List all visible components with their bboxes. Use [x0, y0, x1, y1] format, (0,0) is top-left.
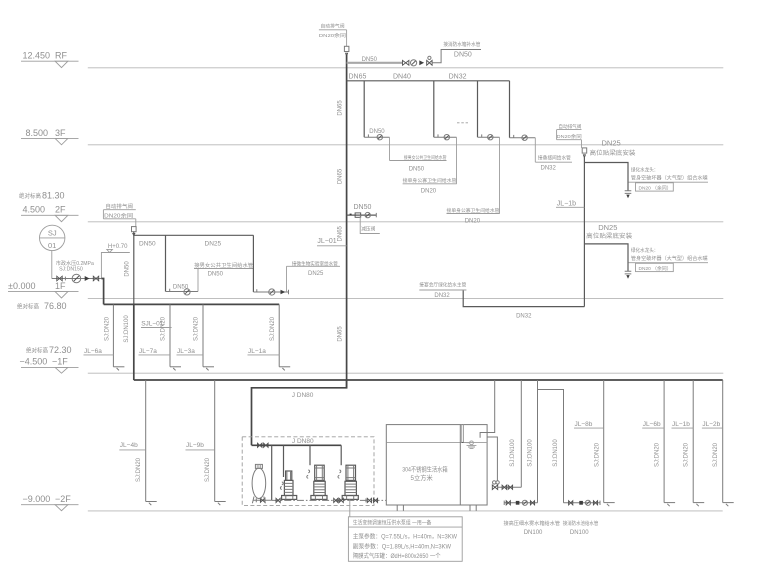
connector down to callout 3 — [499, 137, 501, 213]
svg-text:自动排气阀: 自动排气阀 — [321, 22, 345, 29]
callout lab supply DN25 (2F) — [287, 260, 341, 278]
svg-text:DN32: DN32 — [516, 313, 532, 319]
level marker -2F -9.000 — [21, 494, 79, 511]
svg-text:DN20: DN20 — [465, 218, 481, 224]
valve pair suction before pump1 — [276, 498, 280, 502]
end cap JL-6b — [664, 503, 675, 507]
svg-text:JL−9b: JL−9b — [186, 442, 204, 449]
label auto air valve (top, DN20) — [319, 22, 347, 46]
end cap JL-6a — [113, 367, 124, 371]
pipe drop 2 from header — [433, 81, 435, 137]
meter M1 water meter — [72, 274, 81, 283]
svg-text:−9.000: −9.000 — [23, 494, 51, 504]
svg-text:DN20 （余同）: DN20 （余同） — [639, 265, 672, 272]
pipe overflow to valve — [487, 437, 497, 481]
svg-text:SJ:DN20: SJ:DN20 — [684, 442, 690, 467]
pipe JL-6b — [663, 380, 665, 503]
pipe 2F distribution top — [134, 234, 254, 236]
svg-text:SJ:DN20: SJ:DN20 — [194, 316, 200, 341]
connector up to callout — [197, 269, 199, 292]
pipe JL-8b — [603, 380, 605, 503]
svg-text:减压阀: 减压阀 — [361, 224, 375, 232]
svg-text:DN50: DN50 — [409, 167, 425, 173]
pipe JL-7a — [169, 304, 171, 366]
svg-text:JL−1b: JL−1b — [672, 421, 690, 428]
level marker 1F 0.000 with absolute elevation 76.80 — [8, 281, 79, 311]
svg-text:副泵参数：Q=1.89L/s,H=40m,N=3KW: 副泵参数：Q=1.89L/s,H=40m,N=3KW — [353, 542, 452, 550]
pipe JL-6a — [112, 304, 114, 366]
svg-text:接桑拯间给水管: 接桑拯间给水管 — [538, 154, 571, 162]
pipe drop 1 from header — [363, 81, 365, 137]
svg-text:SJ:DN100: SJ:DN100 — [124, 315, 130, 343]
air valve AV3 on left riser — [132, 227, 137, 236]
pump P1 small — [282, 471, 297, 499]
svg-text:DN65: DN65 — [338, 225, 344, 241]
valve V3 check on DN50 stub — [419, 60, 424, 65]
level marker 3F 8.500 — [21, 128, 79, 145]
svg-text:主泵参数：Q=7.55L/s，H=40m，N=3KW: 主泵参数：Q=7.55L/s，H=40m，N=3KW — [353, 533, 458, 541]
svg-text:DN65: DN65 — [338, 326, 344, 342]
branch 2F-2 w/ valve and check — [253, 289, 288, 295]
connector down to callout 4 — [534, 138, 536, 163]
pipe drop 3 from header — [477, 81, 479, 137]
label JL-8b — [574, 421, 604, 428]
branch PRV at 2F right of riser — [347, 212, 377, 217]
svg-text:76.80: 76.80 — [44, 301, 67, 311]
svg-text:DN20余同: DN20余同 — [104, 211, 133, 219]
pipe J DN80 pump discharge main — [252, 380, 347, 445]
end cap JL-9b — [215, 502, 226, 506]
svg-text:SJ:DN150: SJ:DN150 — [59, 267, 83, 273]
svg-text:304不锈钢生活水箱: 304不锈钢生活水箱 — [402, 464, 448, 473]
label JL-7a — [139, 348, 171, 355]
svg-text:DN20 （余同）: DN20 （余同） — [639, 184, 672, 191]
leader from text box to pump group — [349, 499, 351, 516]
svg-text:DN50: DN50 — [354, 204, 372, 211]
svg-text:DN32: DN32 — [449, 74, 467, 81]
pipe suction line (dash-dot) — [272, 499, 387, 501]
svg-text:81.30: 81.30 — [42, 191, 65, 201]
level marker RF 12.450 — [21, 51, 79, 68]
end cap JL-1a — [279, 367, 290, 371]
valve V1 gate on DN50 stub — [403, 60, 409, 65]
label JL-6b — [642, 421, 664, 428]
svg-text:H+0.70: H+0.70 — [108, 244, 128, 250]
svg-text:DN20余同: DN20余同 — [319, 32, 346, 39]
label SJL-01 — [141, 320, 172, 327]
pipe service entrance 1F — [52, 278, 102, 280]
pipe drop 4 (header end corner) — [509, 81, 511, 138]
svg-text:SJ:DN20: SJ:DN20 — [161, 316, 167, 341]
connector up to callout — [286, 266, 288, 292]
label auto air valve (2F left) — [103, 202, 135, 226]
svg-text:DN100: DN100 — [570, 530, 589, 536]
tank 304 stainless water tank — [386, 425, 487, 505]
end cap JL-8b — [604, 503, 615, 507]
pipe JL-1a (header end corner) — [278, 304, 280, 366]
svg-text:JL−1a: JL−1a — [248, 348, 266, 355]
svg-text:72.30: 72.30 — [49, 345, 72, 355]
end cap JL-3a — [203, 367, 214, 371]
valve pair on manifold — [258, 443, 269, 447]
connector down to callout 2 — [456, 137, 458, 184]
callout banquet hall greening main DN32 — [419, 281, 466, 299]
end cap JL-1b — [693, 503, 704, 507]
svg-text:DN65: DN65 — [338, 100, 344, 116]
svg-text:高位贴梁底安装: 高位贴梁底安装 — [586, 232, 632, 240]
text box pump parameters — [348, 517, 462, 562]
header pipe at RF underside — [347, 80, 510, 82]
pipe JL-4b — [145, 380, 147, 502]
svg-text:DN50: DN50 — [173, 284, 189, 290]
check fittings pump 2 — [307, 470, 310, 478]
callout apartment WC supply DN20 (2) — [447, 207, 500, 225]
valve MV motor operated — [492, 481, 499, 490]
svg-text:SJ:DN20: SJ:DN20 — [595, 442, 601, 467]
valve pair on outlet — [502, 485, 512, 489]
svg-text:8.500: 8.500 — [26, 128, 49, 138]
valve V7 gate on service — [93, 276, 98, 281]
pipe from SJ down — [51, 251, 53, 279]
connector down to callout 1 — [389, 137, 391, 160]
svg-text:绝对标高: 绝对标高 — [19, 192, 41, 200]
valve V2 meter on DN50 stub — [411, 60, 417, 66]
svg-text:生活变频调速恒压供水泵组 一用一备: 生活变频调速恒压供水泵组 一用一备 — [353, 519, 432, 527]
svg-text:绿化水龙头：: 绿化水龙头： — [631, 246, 659, 254]
svg-text:接单身公寡卫生间给水管: 接单身公寡卫生间给水管 — [403, 177, 457, 184]
callout mist tank supply DN100 — [504, 519, 561, 536]
svg-text:接男女公共卫生间给水管: 接男女公共卫生间给水管 — [194, 261, 253, 269]
pipe drop to pump 3 — [340, 445, 342, 465]
pipe DN50 tank refill stub at RF — [347, 57, 403, 63]
svg-text:接宴会厅绿化给水主管: 接宴会厅绿化给水主管 — [419, 281, 466, 289]
pipe tank fill drop — [480, 380, 495, 438]
branch hose bib at 2F — [584, 244, 628, 271]
svg-text:SJ:DN100: SJ:DN100 — [510, 439, 516, 467]
svg-text:3F: 3F — [55, 128, 66, 138]
svg-text:DN25: DN25 — [205, 240, 222, 247]
header pipe basement distribution — [134, 379, 723, 381]
end cap JL-4b — [146, 502, 157, 506]
riser SJ:DN100 no.1 — [520, 380, 522, 487]
floor line RF — [88, 67, 724, 69]
svg-text:SJ:DN20: SJ:DN20 — [270, 316, 276, 341]
svg-text:DN20: DN20 — [421, 189, 437, 195]
expansion tank (membrane vessel) — [252, 464, 266, 503]
svg-text:SJ:DN20: SJ:DN20 — [136, 457, 142, 482]
svg-text:高位贴梁底安装: 高位贴梁底安装 — [590, 149, 636, 157]
svg-text:01: 01 — [48, 241, 56, 250]
hose bib HB1 — [625, 191, 632, 198]
branch hose bib at 3F — [584, 163, 628, 191]
pipe JL-3a — [202, 304, 204, 366]
pipe JL-9b — [214, 380, 216, 502]
label PRV (reducing valve) — [360, 215, 380, 233]
svg-text:SJ:DN100: SJ:DN100 — [528, 439, 534, 467]
floor line -1F — [88, 372, 724, 374]
svg-text:J DN80: J DN80 — [292, 438, 314, 445]
branch 4 at 3F w/ valve — [510, 135, 536, 141]
ellipsis repetition mark — [457, 122, 468, 124]
svg-text:12.450: 12.450 — [23, 51, 51, 61]
pipe to expansion tank — [271, 445, 273, 500]
header pipe 1F distribution — [104, 303, 280, 305]
svg-text:DN40: DN40 — [393, 74, 411, 81]
valve V4 gate w/signal on DN50 stub — [427, 56, 432, 65]
callout fire pool supply DN100 — [563, 519, 599, 536]
riser SJ:DN100 left vertical — [133, 232, 135, 305]
svg-text:RF: RF — [55, 51, 67, 61]
hose bib HB2 — [625, 271, 632, 278]
elevation callout H+0.70 — [101, 244, 129, 279]
svg-text:DN65: DN65 — [338, 168, 344, 184]
check fittings pump 1 — [280, 482, 283, 489]
pump P3 vertical multistage — [342, 465, 358, 499]
svg-text:接单身公寡卫生间给水管: 接单身公寡卫生间给水管 — [447, 207, 500, 214]
svg-text:±0.000: ±0.000 — [8, 281, 35, 291]
svg-text:SJ: SJ — [48, 229, 57, 238]
svg-text:2F: 2F — [55, 204, 66, 214]
svg-text:JL−4b: JL−4b — [120, 442, 138, 449]
tank legs — [397, 505, 476, 511]
svg-text:SJ:DN100: SJ:DN100 — [553, 439, 559, 467]
end cap JL-7a — [170, 367, 181, 371]
svg-text:JL−6b: JL−6b — [643, 421, 661, 428]
pipe drop to pump 2 — [309, 445, 311, 465]
pipe JL-1b vertical — [583, 157, 585, 307]
callout sauna room supply DN32 — [535, 154, 572, 172]
pipe drop to pump 1 — [283, 445, 285, 477]
svg-text:自动排气阀: 自动排气阀 — [105, 202, 133, 210]
svg-text:JL−1b: JL−1b — [557, 200, 576, 207]
label JL-4b — [119, 442, 145, 450]
svg-text:绝对标高: 绝对标高 — [26, 347, 48, 355]
svg-text:绝对标高: 绝对标高 — [17, 303, 39, 311]
label JL-6a — [84, 348, 114, 355]
svg-text:DN50: DN50 — [124, 261, 130, 277]
svg-text:JL−01: JL−01 — [317, 238, 336, 245]
end cap JL-2b — [723, 503, 734, 507]
svg-text:隔膜式气压罐：ØdH=800x2650 一个: 隔膜式气压罐：ØdH=800x2650 一个 — [353, 552, 441, 560]
svg-text:DN50: DN50 — [208, 272, 224, 278]
label fire tank refill DN50 — [443, 40, 480, 58]
svg-text:SJ:DN20: SJ:DN20 — [655, 442, 661, 467]
level marker 2F 4.500 with absolute elevation 81.30 — [19, 191, 79, 222]
label JL-2b — [702, 421, 723, 428]
pipe JL-1b lower — [692, 380, 694, 503]
svg-text:JL−7a: JL−7a — [139, 348, 157, 355]
check fittings pump 3 — [338, 470, 341, 478]
valve group to mist tank — [504, 500, 537, 505]
label JL-9b — [186, 442, 215, 450]
label auto air valve (JL-1b top) — [557, 123, 582, 148]
svg-text:DN32: DN32 — [434, 293, 450, 299]
branch 1 at 3F w/ valve — [364, 134, 389, 140]
pipe discharge manifold — [252, 444, 342, 446]
valve V5 gate on service — [57, 276, 62, 281]
pipe to riser 1 — [498, 486, 522, 488]
float valve assembly in tank — [462, 425, 477, 449]
svg-text:DN50: DN50 — [454, 51, 472, 58]
svg-text:接消防水池给水管: 接消防水池给水管 — [563, 519, 599, 527]
node SJ municipal source symbol — [40, 225, 65, 250]
svg-text:DN20余同: DN20余同 — [557, 133, 582, 140]
pump room dashed enclosure — [242, 437, 374, 506]
svg-text:DN32: DN32 — [541, 165, 557, 171]
svg-text:接高压细水雾水箱给水管: 接高压细水雾水箱给水管 — [504, 519, 561, 527]
svg-text:DN50: DN50 — [139, 240, 156, 247]
label JL-1b — [556, 200, 584, 207]
pipe 1F feed to JL-1b — [463, 290, 584, 307]
pipe to fire tank refill — [432, 50, 481, 63]
svg-text:JL−6a: JL−6a — [84, 348, 102, 355]
branch 2 at 3F w/ valve — [434, 134, 457, 140]
svg-text:SJ:DN20: SJ:DN20 — [205, 457, 211, 482]
svg-text:DN50: DN50 — [362, 57, 378, 63]
svg-text:−4.500: −4.500 — [20, 357, 48, 367]
svg-text:绿化水龙头：: 绿化水龙头： — [631, 166, 659, 174]
label JL-01 riser — [317, 238, 347, 246]
svg-text:管身空破坏器（大气型）组合水嘴: 管身空破坏器（大气型）组合水嘴 — [631, 174, 708, 182]
svg-text:1F: 1F — [55, 281, 66, 291]
valve group to fire pool — [564, 500, 601, 505]
floor line 2F — [88, 221, 724, 223]
svg-text:SJ:DN20: SJ:DN20 — [713, 442, 719, 467]
valve pair suction at tank — [366, 498, 378, 502]
svg-text:DN100: DN100 — [524, 530, 543, 536]
floor line 1F — [88, 298, 724, 300]
label municipal pressure — [56, 259, 94, 273]
svg-text:DN65: DN65 — [349, 74, 367, 81]
level marker -1F -4.500 with absolute elevation 72.30 — [20, 345, 79, 373]
svg-text:5立方米: 5立方米 — [411, 473, 434, 482]
svg-text:JL−2b: JL−2b — [702, 421, 720, 428]
svg-text:DN25: DN25 — [598, 223, 617, 232]
svg-text:DN25: DN25 — [602, 139, 621, 148]
svg-text:−2F: −2F — [55, 494, 71, 504]
svg-text:SJ:DN20: SJ:DN20 — [104, 316, 110, 341]
label JL-3a — [177, 348, 204, 355]
pump P2 vertical multistage — [311, 465, 327, 499]
callout public WC supply DN50 (2F) — [194, 261, 254, 278]
riser SJ:DN100 to basement — [133, 304, 135, 380]
pipe JL-2b (header end) — [722, 380, 724, 503]
pipe drop 2F branch 2 — [252, 235, 254, 292]
riser JL-01 DN65 main vertical — [346, 55, 348, 388]
tick joint — [64, 277, 66, 281]
air valve AV2 on JL-1b — [582, 148, 587, 158]
riser SJ:DN100 no.2 with loop — [537, 380, 539, 503]
loop pipe — [538, 390, 564, 503]
valve V6 check on service — [85, 276, 90, 281]
svg-text:−1F: −1F — [52, 357, 68, 367]
floor line -2F — [88, 510, 723, 512]
svg-text:DN25: DN25 — [308, 271, 324, 277]
svg-text:J DN80: J DN80 — [292, 392, 314, 399]
callout apartment WC supply DN20 — [403, 177, 457, 194]
svg-text:接消防水箱补水管: 接消防水箱补水管 — [443, 40, 480, 48]
svg-text:自动排气阀: 自动排气阀 — [558, 123, 581, 130]
svg-text:管身空破坏器（大气型）组合水嘴: 管身空破坏器（大气型）组合水嘴 — [631, 254, 708, 262]
valve pair suction between pumps — [334, 498, 344, 502]
svg-text:接男女公共卫生间给水管: 接男女公共卫生间给水管 — [404, 154, 447, 161]
branch 2F-1 w/ valve — [166, 289, 199, 295]
label JL-1a — [248, 348, 280, 355]
pipe tank bottom link w/ valve — [253, 498, 272, 502]
callout garden tap (2F) — [629, 246, 709, 272]
callout garden tap (3F) — [629, 166, 709, 192]
branch 3 at 3F w/ valve — [478, 134, 500, 140]
svg-text:4.500: 4.500 — [23, 204, 46, 214]
svg-text:JL−3a: JL−3a — [177, 348, 195, 355]
pipe corner down to 1F header — [101, 279, 103, 305]
callout public WC supply DN50 — [390, 154, 447, 173]
air valve AV1 on riser JL-01 top — [344, 46, 349, 56]
floor line 3F — [88, 144, 724, 146]
pipe drop 2F branch 1 — [165, 235, 167, 291]
label JL-1b (basement) — [672, 421, 694, 428]
svg-text:JL−8b: JL−8b — [575, 421, 593, 428]
svg-text:DN50: DN50 — [369, 129, 385, 135]
